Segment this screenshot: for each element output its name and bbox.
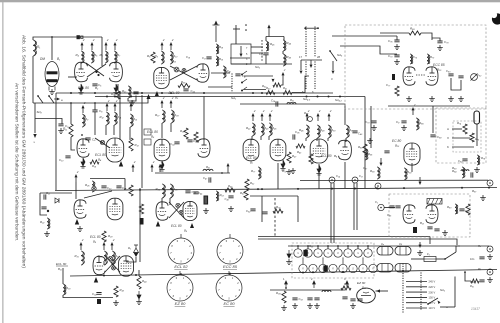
resistor R36 [114, 286, 118, 297]
wire C80 C81 [451, 78, 461, 90]
ground chain [286, 259, 292, 264]
wire R68 right [421, 33, 432, 40]
svg-text:2: 2 [83, 101, 86, 105]
wire box bottom rail [388, 105, 470, 107]
wire tap 200 V [406, 291, 427, 293]
connector sync out [487, 180, 493, 186]
switch section S1-1 [294, 249, 302, 257]
supply arrow B11 a [80, 245, 82, 250]
svg-text:ECL 80: ECL 80 [169, 91, 180, 95]
wire osc left ext [230, 57, 250, 59]
cable pair bottom [258, 237, 430, 240]
resistor R39 [184, 128, 188, 139]
svg-text:2: 2 [152, 160, 155, 164]
coil L9 [322, 291, 331, 293]
svg-text:G: G [357, 252, 359, 255]
tube B1 DM70 magic eye [45, 62, 59, 87]
svg-text:2: 2 [92, 38, 95, 42]
resistor R44c [309, 154, 313, 164]
wire R12 down [105, 125, 107, 135]
coil R43 [261, 123, 263, 136]
scan left edge line [2, 2, 3, 323]
supply arrow B7 a [252, 116, 254, 121]
chassis B2b cathode [114, 84, 118, 92]
wire B8 left [40, 193, 47, 215]
supply arrow B9 b [151, 167, 153, 172]
coil R31b [203, 169, 213, 171]
wire to dashed box upper [332, 35, 397, 37]
svg-text:F₁: F₁ [427, 252, 430, 256]
junction R11 [70, 102, 72, 104]
coil R61 [462, 167, 464, 178]
svg-text:ECL 80: ECL 80 [147, 130, 158, 134]
capacitor C73 [394, 55, 399, 57]
svg-text:2: 2 [104, 238, 107, 242]
coil R35 [170, 184, 172, 198]
capacitor C96 [342, 297, 347, 299]
svg-text:ECC 85: ECC 85 [223, 264, 238, 269]
svg-text:2: 2 [133, 160, 136, 164]
wire D1 down [126, 257, 136, 262]
supply arrow x106 [105, 45, 107, 50]
winding taps [382, 247, 406, 273]
resistor R105 [341, 286, 351, 290]
svg-text:B₁₁: B₁₁ [58, 267, 62, 271]
supply arrow J3 [282, 75, 284, 80]
crystal pill [474, 111, 480, 124]
svg-text:G: G [317, 252, 319, 255]
switch contacts SAT [231, 73, 232, 74]
svg-text:SA₄,₂: SA₄,₂ [335, 98, 343, 102]
boxed label L5 [144, 129, 151, 135]
ground C76 [394, 44, 400, 49]
svg-text:2: 2 [329, 109, 332, 113]
supply arrow x115 [114, 45, 116, 50]
wire tap 245 V [406, 281, 427, 283]
svg-text:R₆₀: R₆₀ [452, 166, 457, 170]
connector video out [375, 183, 381, 189]
wire X [452, 137, 470, 139]
resistor R43c [296, 144, 305, 148]
coil R4 [81, 51, 83, 63]
capacitor C98 [357, 299, 362, 301]
coil R31c [287, 103, 296, 105]
wire B8 top bar [90, 178, 125, 180]
socket EZ80 [167, 275, 193, 301]
electrolytic C40 [140, 218, 144, 225]
electrolytic C33 [97, 299, 101, 304]
switch section S1-4 [324, 249, 332, 257]
wire arrow B8 down [75, 182, 77, 199]
capacitor C64 [434, 229, 439, 231]
switch SA42 contact c [241, 90, 243, 92]
switch contacts SA4 col2 lower [314, 61, 315, 62]
resistor R50b [266, 91, 275, 95]
resistor R52b [273, 83, 281, 87]
supply arrow B7 b [261, 116, 263, 121]
wire psu bottom [270, 289, 345, 291]
coil R6 [105, 51, 107, 63]
coil R18 [216, 44, 218, 54]
delay line hatched [427, 199, 442, 205]
ground C81 [458, 96, 464, 101]
wire SA4 left drop [300, 60, 302, 70]
svg-text:Rₐ: Rₐ [478, 244, 481, 248]
wire R33 down [111, 261, 113, 265]
coil R30 [63, 284, 65, 295]
diode crystal [55, 198, 59, 203]
wire left drop B12 [370, 106, 372, 148]
svg-text:R₁₀₅: R₁₀₅ [344, 282, 350, 286]
wire B2b cathode down [117, 84, 119, 91]
wire vertical rail x365 [364, 97, 366, 189]
svg-text:Abb. 16. Schaltbild des Ferns: Abb. 16. Schaltbild des Fernseh-Prüfgene… [20, 35, 26, 268]
svg-text:245 V: 245 V [429, 280, 436, 284]
wire diag B8a [84, 191, 112, 198]
chassis B5 cathode [160, 161, 164, 169]
wire B12 cathode down [411, 163, 413, 172]
capacitor C14b [276, 101, 278, 106]
svg-text:R: R [302, 268, 304, 271]
switch section S1-5 [334, 249, 342, 257]
coil R33 [112, 251, 114, 265]
switch SA5 lever [330, 51, 337, 61]
capacitor C63 [262, 212, 267, 214]
wire B+ rail upper [56, 92, 333, 94]
capacitor C52 [263, 53, 268, 55]
coil R48 [317, 125, 319, 138]
resistor R47 [287, 152, 291, 163]
terminal mains b [487, 269, 493, 275]
svg-text:SH₂: SH₂ [37, 110, 43, 114]
coil R38 [171, 110, 173, 123]
wire full-width rail y274 [70, 270, 497, 277]
ground mains top [417, 250, 423, 255]
switch section S2-6 [349, 264, 357, 272]
wire R37 down [161, 123, 163, 138]
junction dots chain rail [297, 245, 299, 247]
diode D1 [134, 245, 139, 253]
capacitor C68 [384, 151, 389, 153]
coil R17 [128, 86, 130, 98]
svg-text:ECL 80: ECL 80 [171, 224, 182, 228]
coil R42 [252, 123, 254, 136]
switch section S2-3 [319, 264, 327, 272]
wire osc left stub [265, 37, 267, 42]
ground B10 a [406, 96, 412, 101]
svg-text:2: 2 [162, 38, 165, 42]
coil R22 [47, 218, 49, 229]
resistor R81 [466, 204, 470, 215]
wire B11 left [62, 268, 64, 284]
supply arrow B9 c [159, 167, 161, 172]
wire cross a [86, 63, 104, 76]
svg-text:R: R [362, 268, 364, 271]
switch SA42 contact b [241, 82, 243, 84]
coil R53 [216, 191, 218, 201]
svg-text:ECL 80: ECL 80 [321, 154, 332, 158]
coil R44 [283, 40, 285, 51]
capacitor C35 [187, 140, 192, 142]
svg-text:R₃₈: R₃₈ [174, 113, 179, 117]
cathode arrow B9a [156, 221, 160, 227]
wire v262 [261, 196, 263, 222]
svg-text:2: 2 [162, 96, 165, 100]
supply arrow B11 b [103, 245, 105, 250]
svg-text:R₄₈: R₄₈ [320, 128, 325, 132]
ground C97 [350, 303, 356, 308]
junction SA6 b [245, 29, 247, 31]
coil R19 [216, 56, 218, 66]
capacitor C95 [314, 298, 319, 300]
supply arrow B5 a [161, 103, 163, 108]
wire SA6 stem [235, 25, 237, 44]
svg-text:R₃₀: R₃₀ [66, 286, 71, 290]
svg-text:R₃₁: R₃₁ [206, 165, 210, 169]
svg-text:X: X [447, 136, 449, 140]
svg-text:13437: 13437 [471, 307, 480, 311]
wire filter [128, 96, 136, 102]
wire R14 down [113, 125, 115, 135]
resistor R10b [116, 91, 120, 99]
arrow right mid [419, 177, 421, 182]
junction C8 [94, 102, 96, 104]
tube B6 triode [339, 140, 352, 160]
wire J3 down [281, 80, 283, 85]
svg-text:C₁₀: C₁₀ [59, 158, 64, 162]
wire tap 110 V [406, 307, 427, 309]
tube B11 triode [93, 256, 105, 274]
svg-text:ECL 80: ECL 80 [56, 262, 67, 266]
coil R50 [328, 125, 330, 138]
svg-text:R₃₁: R₃₁ [290, 98, 294, 102]
junction antenna [51, 36, 53, 38]
wire B8 top bar drop [124, 179, 126, 191]
underline ECL80 B11 [56, 265, 68, 267]
resistor R8 [151, 52, 155, 63]
cathode arrow R44b [137, 291, 141, 299]
wire chain top rail [288, 245, 460, 247]
capacitor C49 [352, 131, 357, 133]
wire SA42 c [240, 103, 300, 105]
ground R73 [286, 169, 292, 174]
wire C78 [432, 38, 440, 41]
wire to R11 [70, 103, 72, 124]
arrowhead SA42 [272, 76, 275, 82]
switch SA2 lever [428, 298, 438, 304]
switch section S1-7 [354, 249, 362, 257]
resistor R63 [363, 144, 367, 155]
resistor R28b [139, 204, 143, 214]
capacitor C80 [448, 74, 453, 76]
wire tap 127 V [406, 302, 427, 304]
capacitor C9b [401, 121, 406, 123]
wire SA6 out b [251, 52, 263, 54]
supply arrow B4 c [114, 106, 116, 111]
resistor R44b [137, 276, 141, 289]
tube B5 pentode [106, 138, 124, 162]
svg-text:EZ 80: EZ 80 [357, 281, 366, 285]
svg-text:2: 2 [106, 38, 109, 42]
ground C78 [437, 45, 443, 50]
supply arrow B6 a [306, 116, 308, 121]
wire SA5 drop [332, 61, 334, 70]
crossover B3 1 [174, 67, 179, 72]
switch section S2-7 [359, 264, 367, 272]
junction grid B4 [81, 134, 83, 136]
dashed sweep left [274, 198, 276, 236]
chassis B6 cathode [317, 165, 321, 173]
socket EC80 [216, 275, 242, 301]
wire SA42 to wafer [292, 76, 309, 93]
svg-text:2: 2 [112, 238, 115, 242]
wire full-width rail y190 [55, 188, 497, 191]
ground R22 [44, 231, 50, 236]
svg-text:2: 2 [253, 109, 256, 113]
wire drop C14 a [330, 183, 332, 243]
coil R77 [258, 167, 260, 179]
coil R64 [461, 170, 469, 171]
wire lever out [440, 306, 455, 308]
connector C17 [352, 177, 358, 183]
coil R51 [346, 125, 348, 138]
supply arrow B8 [75, 177, 77, 182]
capacitor C19 [44, 194, 46, 199]
tube B11 pentode [119, 256, 134, 276]
capacitor C28 [116, 186, 121, 188]
terminal arrow 2 [313, 281, 316, 288]
wire tick S1-1 [297, 246, 299, 249]
svg-text:2: 2 [131, 99, 134, 103]
coil R1 [33, 40, 36, 56]
ground C94 [307, 303, 313, 308]
tube B8 pentode [107, 198, 123, 220]
svg-text:Rᵦ: Rᵦ [478, 267, 481, 271]
arrow SA4 center [310, 60, 312, 65]
tube B9 triode a [156, 202, 168, 220]
wire R32 down [103, 261, 105, 265]
wire to R44b [138, 270, 140, 276]
wire R51 down [345, 138, 347, 142]
wire B3 cathode to SA6 [208, 86, 232, 88]
svg-text:Uᵦ: Uᵦ [399, 242, 402, 246]
supply arrow B6 c [328, 116, 330, 121]
svg-text:ECL 80: ECL 80 [95, 153, 106, 157]
supply arrow B9 a [132, 167, 134, 172]
tube B3 triode [197, 64, 209, 82]
crossover B11 b [112, 266, 116, 270]
coil R56 [365, 149, 367, 160]
wire SA42 a [244, 75, 273, 77]
chassis B2a cathode [79, 84, 83, 92]
svg-text:K: K [447, 145, 449, 149]
svg-text:R₅₀: R₅₀ [331, 128, 336, 132]
svg-text:R₃₁: R₃₁ [75, 254, 79, 258]
resistor R68 [409, 31, 421, 35]
wire R38 down [170, 123, 172, 132]
svg-text:R₅₈: R₅₈ [370, 169, 375, 173]
switch section S1-8 [364, 249, 372, 257]
tube B2 triode b [110, 62, 123, 82]
arrow a [54, 98, 58, 100]
wire sweep top [250, 195, 298, 197]
ground mains a [487, 254, 493, 259]
coil R46 [283, 54, 285, 66]
wire osc left down [265, 55, 267, 64]
svg-text:SA₁: SA₁ [231, 96, 236, 100]
wire osc top [266, 36, 284, 38]
socket ECC85 [217, 238, 243, 264]
ground sync box [442, 230, 448, 235]
capacitor C78 [437, 41, 442, 43]
trimmer C82 [471, 74, 478, 81]
wire video rail y180 [300, 179, 488, 181]
svg-text:SA₅: SA₅ [337, 53, 343, 57]
arrow mains top [419, 242, 421, 245]
junction SA6 a [245, 24, 247, 26]
tube B8 triode [74, 200, 86, 218]
capacitor C8 [92, 110, 97, 112]
capacitor C39 [193, 192, 198, 194]
junction dots rail y190 [139, 189, 141, 191]
wire crystal down [476, 124, 478, 146]
junction dots lower rail [106, 96, 108, 98]
capacitor C59 [459, 209, 464, 211]
dashed enclosure FM box [345, 25, 486, 109]
capacitor C62 [250, 209, 255, 211]
wire AGC rail [33, 97, 148, 104]
resistor R103 [282, 291, 286, 303]
ground filter [129, 100, 135, 105]
svg-text:2: 2 [115, 38, 118, 42]
svg-text:An verschiedenen Stellen ist d: An verschiedenen Stellen ist die Schaltu… [13, 83, 19, 242]
wire to terminal a [456, 246, 489, 252]
supply arrow B4 b [106, 106, 108, 111]
chassis B4 cathode [81, 158, 85, 166]
coil R37 [162, 110, 164, 123]
ground B8 cathode [77, 226, 83, 231]
wire C76 top [396, 36, 398, 40]
wire osc right stub [283, 37, 285, 41]
wire osc bottom rail [231, 63, 292, 65]
wire cross b [87, 64, 106, 77]
supply arrow x82 [81, 45, 83, 50]
svg-text:C₇₀: C₇₀ [365, 120, 370, 124]
svg-text:B₁: B₁ [57, 57, 60, 61]
wire diag B11b [105, 256, 120, 272]
supply arrow B4 a [82, 108, 84, 113]
resistor R91 [471, 279, 479, 283]
tube B10 triode a [403, 67, 415, 85]
wire cable corner b [430, 239, 457, 245]
coil R80 [455, 204, 457, 214]
capacitor C70 [371, 121, 376, 123]
capacitor C61 [427, 227, 432, 229]
resistor R74 [463, 124, 467, 134]
capacitor C12 [133, 92, 138, 94]
resistor R75 [470, 133, 474, 142]
svg-text:C₁: C₁ [375, 200, 378, 204]
wire vertical rail x142 lower [139, 188, 141, 262]
resistor R49b [225, 188, 235, 192]
wire fuse out [436, 258, 445, 260]
supply arrow B5 b [170, 103, 172, 108]
wire R43 down [260, 136, 262, 140]
electrolytic C60 [413, 227, 417, 233]
switch section S2-8 [369, 264, 377, 272]
wire jack to caps [384, 207, 395, 209]
svg-text:Uₐ: Uₐ [381, 242, 384, 246]
